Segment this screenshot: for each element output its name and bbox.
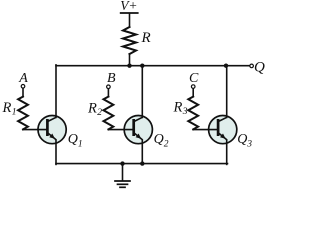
svg-text:B: B bbox=[107, 71, 116, 86]
svg-text:3: 3 bbox=[182, 107, 188, 117]
svg-text:Q: Q bbox=[68, 132, 78, 147]
svg-text:R: R bbox=[141, 30, 151, 46]
svg-text:2: 2 bbox=[164, 140, 169, 150]
svg-text:V+: V+ bbox=[120, 0, 137, 13]
svg-text:Q: Q bbox=[254, 59, 265, 75]
svg-text:Q: Q bbox=[237, 132, 247, 147]
svg-text:R: R bbox=[2, 100, 12, 116]
svg-text:1: 1 bbox=[78, 140, 83, 150]
svg-text:R: R bbox=[173, 100, 183, 116]
svg-text:Q: Q bbox=[154, 132, 164, 147]
svg-text:2: 2 bbox=[97, 108, 102, 118]
svg-text:A: A bbox=[18, 71, 28, 86]
svg-text:1: 1 bbox=[12, 107, 17, 117]
svg-text:C: C bbox=[189, 71, 199, 86]
svg-text:3: 3 bbox=[246, 140, 252, 150]
svg-text:R: R bbox=[87, 101, 97, 117]
